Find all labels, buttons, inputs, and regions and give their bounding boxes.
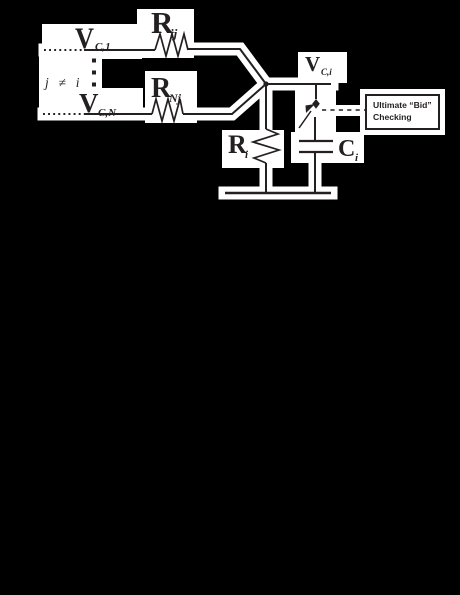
halo label V_C,N: [39, 88, 143, 118]
resistor RNj zigzag: [152, 99, 183, 121]
vertical ellipsis dots: [92, 59, 96, 63]
wire dotted leader V_C,1: [44, 49, 84, 51]
capacitor Ci bottom plate: [299, 151, 333, 153]
halo wire ground rail: [225, 187, 331, 200]
svg-text:Checking: Checking: [373, 112, 412, 122]
halo dashed link: [320, 105, 366, 116]
halo wire switch stem: [310, 84, 323, 99]
wire R1j to node B (bend): [188, 49, 266, 84]
svg-text:V: V: [305, 52, 320, 76]
halo node j!=i dots: [39, 52, 102, 100]
halo wire leader N: [44, 108, 152, 121]
wire Ri to ground rail: [265, 163, 267, 193]
wire V_C,1 to R1j: [84, 49, 155, 51]
svg-text:Ultimate “Bid”: Ultimate “Bid”: [373, 100, 432, 110]
halo wire capacitor: [309, 112, 322, 193]
switch blade: [299, 111, 311, 128]
wire switch stem: [315, 84, 317, 99]
halo checking box: [360, 89, 445, 135]
checking box: [366, 95, 439, 129]
dashed link to checking box: [322, 109, 366, 111]
halo wire collector bottom: [180, 84, 266, 114]
switch arrowhead: [306, 104, 316, 113]
halo wire collector top: [187, 49, 266, 84]
wire node B down to Ri: [265, 84, 267, 129]
wire Ci to ground rail: [314, 152, 316, 193]
halo wire vertical Ri: [260, 84, 273, 193]
svg-text:C: C: [338, 136, 355, 162]
capacitor Ci top plate: [299, 140, 333, 142]
halo wire leader 1: [45, 44, 154, 57]
halo resistor RNj: [145, 71, 197, 123]
node B junction: [263, 81, 268, 86]
wire dotted leader V_C,N: [43, 113, 84, 115]
wire node B to V_C,i: [266, 83, 331, 85]
wire V_C,N to RNj: [84, 113, 152, 115]
halo resistor R1j: [137, 9, 194, 58]
halo label V_C,1: [42, 24, 142, 59]
switch contact diamond: [312, 99, 320, 109]
svg-text:C,i: C,i: [321, 67, 332, 77]
ground rail: [225, 192, 331, 194]
halo wire output: [266, 78, 332, 91]
halo resistor Ri: [222, 130, 284, 168]
halo label V_C,i: [298, 52, 347, 83]
resistor R1j zigzag: [155, 34, 188, 56]
svg-text:j ≠ i: j ≠ i: [43, 75, 83, 90]
resistor Ri zigzag: [253, 129, 279, 163]
halo capacitor Ci: [291, 132, 364, 163]
halo switch: [295, 88, 336, 138]
svg-text:C,1: C,1: [95, 41, 111, 53]
wire switch to capacitor: [314, 117, 316, 141]
wire RNj to node B: [183, 84, 266, 114]
